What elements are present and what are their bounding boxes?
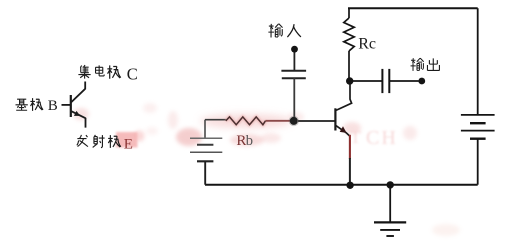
svg-text:B: B: [48, 98, 58, 114]
svg-text:E: E: [124, 136, 133, 152]
svg-text:T: T: [350, 127, 361, 147]
svg-text:b: b: [246, 133, 253, 149]
svg-text:Rc: Rc: [358, 36, 376, 53]
svg-text:CH: CH: [366, 127, 398, 149]
svg-text:C: C: [127, 64, 138, 83]
